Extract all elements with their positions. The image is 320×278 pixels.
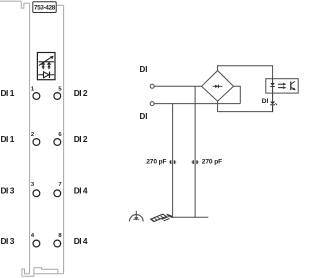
svg-text:DI 4: DI 4: [74, 236, 88, 246]
module outline (753 series side profile, light gray): [0, 1, 64, 276]
terminal circles column: [33, 93, 61, 247]
svg-text:DI 3: DI 3: [1, 236, 15, 246]
svg-text:8: 8: [58, 233, 62, 239]
svg-text:1: 1: [31, 86, 35, 92]
functional earth symbol: [129, 211, 143, 222]
svg-text:DI: DI: [140, 65, 148, 74]
270 pF capacitor left: [169, 160, 176, 164]
icon: diode cathode bar: [49, 72, 51, 79]
svg-text:270 pF: 270 pF: [146, 158, 166, 165]
svg-text:DI 1: DI 1: [1, 88, 15, 98]
chassis ground symbol: [151, 214, 173, 221]
optocoupler LED: [270, 79, 274, 93]
svg-text:270 pF: 270 pF: [202, 158, 222, 165]
wire: bridge right corner to bottom wire: [234, 86, 241, 103]
top rail stub: [0, 0, 21, 2]
top edge right of label: [56, 4, 63, 6]
icon: LED 2 (triangle up + lead + arrow): [47, 62, 51, 65]
wire: bottom input to x=240: [154, 103, 240, 105]
wire: capacitor branch from bottom wire: [172, 104, 174, 218]
svg-text:DI: DI: [262, 98, 269, 105]
terminal 4: [33, 240, 40, 247]
svg-text:6: 6: [58, 132, 62, 138]
wire: capacitor branch from top wire: [194, 86, 196, 217]
terminal 8: [54, 240, 61, 247]
icon: cathode bar: [39, 61, 54, 63]
svg-text:DI 2: DI 2: [74, 88, 88, 98]
status LED emission arrows: [275, 103, 277, 104]
svg-text:DI 3: DI 3: [1, 186, 15, 196]
optocoupler U1 box: [266, 79, 298, 93]
svg-text:4: 4: [31, 233, 35, 239]
icon: LED 1 (triangle up + lead + arrow): [41, 62, 45, 65]
svg-text:753-428: 753-428: [34, 5, 56, 12]
input terminal bottom: [150, 102, 154, 106]
wire: ground rail: [171, 216, 209, 218]
optocoupler light arrows: [278, 83, 286, 89]
input terminal top: [150, 84, 154, 88]
icon: diagonal arrow: [39, 57, 51, 65]
terminal 5: [54, 93, 61, 100]
svg-text:2: 2: [31, 132, 34, 138]
foot inner shelf: [34, 268, 58, 274]
wire: bridge bottom corner to return line: [218, 101, 273, 111]
bridge rectifier: [202, 71, 234, 102]
terminal 7: [54, 190, 61, 197]
right edge: [63, 5, 65, 273]
icon: diode lead: [38, 74, 54, 76]
svg-text:5: 5: [58, 86, 62, 92]
270 pF capacitor right: [192, 160, 199, 164]
bridge inner diode: [213, 85, 223, 88]
terminal numbers: [31, 86, 63, 239]
terminal 1: [33, 93, 40, 100]
icon: diode triangle (hollow): [44, 72, 49, 78]
terminal 3: [33, 190, 40, 197]
left edge: [29, 3, 31, 273]
status LED icon box: [37, 53, 55, 80]
top mounting tab: [21, 1, 29, 8]
label box 753-428: [33, 2, 56, 13]
svg-text:DI 2: DI 2: [74, 134, 88, 144]
wire: top input to bridge left corner: [154, 85, 201, 87]
channel labels: [1, 88, 88, 246]
optocoupler phototransistor: [291, 81, 296, 90]
wire: bridge top corner up and right to optocoupler: [218, 66, 273, 79]
status LED (below optocoupler): [270, 93, 277, 112]
svg-text:DI: DI: [140, 112, 148, 121]
svg-text:DI 1: DI 1: [1, 134, 15, 144]
svg-text:DI 4: DI 4: [74, 186, 88, 196]
terminal 2: [33, 139, 40, 146]
bottom foot with rail latch: [22, 269, 64, 276]
svg-text:3: 3: [31, 182, 35, 188]
terminal 6: [54, 139, 61, 146]
svg-text:7: 7: [58, 182, 61, 188]
